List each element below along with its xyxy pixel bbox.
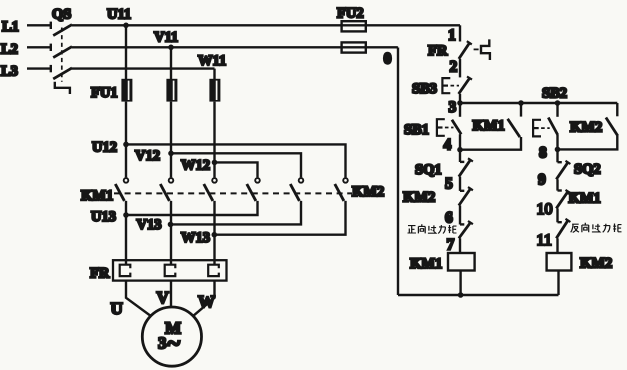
svg-text:3: 3 [158,334,167,353]
wire phase W vertical upper [213,69,215,80]
wire KM2 aux bottom to node 8 [558,136,618,150]
wire contact 1 bottom to U13 and FR [125,201,127,265]
svg-text:~: ~ [168,331,181,357]
svg-text:6: 6 [445,210,453,227]
svg-text:SB3: SB3 [412,81,437,97]
node 4 junction dot [457,147,463,153]
svg-text:QS: QS [52,7,71,23]
switch QS pole L3 contact tick [50,65,52,72]
wire phase W vertical mid (fuse to contact 3) [213,102,215,178]
contactor KM1 interlock NC contact [556,190,570,209]
svg-text:4: 4 [444,137,452,154]
node V12 junction dot [168,151,174,157]
svg-text:3: 3 [449,99,457,116]
svg-text:U13: U13 [91,209,116,225]
wire SB2 branch top [556,103,558,117]
fuse FU1 V-phase [166,79,177,102]
contactor KM2 main contact 6 [335,178,348,201]
svg-text:1: 1 [448,27,456,44]
svg-text:W13: W13 [181,230,210,246]
node U12 junction dot [123,142,129,148]
svg-text:KM1: KM1 [569,191,601,207]
button SB3 NC [442,77,472,94]
wire phase V vertical upper [170,47,172,80]
svg-text:8: 8 [539,145,547,162]
wire U to motor [126,281,150,316]
motor M circle [142,307,201,366]
wire SB3 to node 3 [459,94,461,103]
svg-text:2: 2 [450,59,458,76]
wire phase U vertical upper [125,25,127,80]
switch QS pole L1 contact tick [50,22,52,29]
svg-text:V12: V12 [135,148,160,164]
button SB2 NO start reverse [533,118,558,137]
svg-text:V13: V13 [137,217,162,233]
wire KM2 aux branch top [616,103,618,116]
FR trip dash link [474,48,479,50]
wire W13 horizontal to contact 6 bottom [215,201,346,235]
svg-text:5: 5 [445,176,453,193]
wire KM1 aux bottom to node 4 [460,137,521,150]
switch QS pole L2 blade [53,47,72,58]
wire node1 to node2 to SB3 [459,59,461,78]
wire overtorque to KM1 coil [459,238,461,253]
wire V12 horizontal to contact 5 [171,153,301,177]
svg-text:11: 11 [537,232,552,249]
wire bottom return line [398,294,559,296]
wire node8 to SQ2 [556,149,558,162]
node U11 junction dot [123,23,129,29]
FR heater element V [165,265,176,276]
svg-text:FU1: FU1 [91,85,118,101]
switch QS pole L3 blade [53,68,72,79]
wire W12 horizontal to contact 4 [215,162,258,177]
node KM1-aux top junction dot [518,100,524,106]
svg-text:W12: W12 [181,158,210,174]
svg-text:U11: U11 [107,7,131,23]
wire node4 to SQ1 [459,150,461,162]
svg-text:KM2: KM2 [580,256,612,272]
wire node3 to SB1 [459,103,461,117]
svg-text:SB1: SB1 [404,122,429,138]
wire KM1 coil to bottom line [459,271,461,296]
svg-text:KM2: KM2 [352,184,384,200]
contactor KM1 auxiliary NO contact [508,119,520,137]
svg-text:U: U [111,299,123,318]
FR thermal element symbol [481,39,490,60]
svg-text:FR: FR [90,266,110,282]
wire L3 stub [27,67,51,69]
fuse FU2 lower [342,42,366,52]
wire L2 main run to FU2 [72,46,398,49]
forward overtorque NC contact [459,221,473,238]
wire KM1 aux branch top [520,103,522,117]
node U13 junction dot [123,212,129,218]
contactor KM1 main contact 2 [160,178,173,201]
svg-text:SQ1: SQ1 [415,162,442,178]
coil KM2 [547,253,572,271]
svg-text:10: 10 [537,201,553,218]
svg-text:SQ2: SQ2 [574,162,601,178]
switch QS handle [55,82,70,94]
wire SQ1 to KM2 interlock [459,177,461,191]
wire L1 main run to FU2 [72,24,460,26]
rail 0 vertical [397,48,399,296]
svg-text:KM2: KM2 [570,120,602,136]
linkage dashed line KM1-KM2 main contacts [114,192,352,194]
wire U12 horizontal to contact 6 [126,144,346,177]
svg-text:KM1: KM1 [473,118,505,134]
contactor KM2 interlock NC contact [459,187,473,205]
contactor KM1 main contact 1 [115,178,128,201]
svg-text:SB2: SB2 [542,86,567,102]
svg-text:FR: FR [428,43,448,59]
node V11 junction dot [168,45,174,51]
node W13 junction dot [212,232,218,238]
wire KM1 interlock to overtorque contact [556,208,558,222]
wire phase U vertical mid (fuse to contact 1) [125,102,127,178]
svg-text:W11: W11 [198,53,226,69]
contactor KM1 main contact 3 [204,178,217,201]
wire node 3 horizontal to KM2 aux branch [460,102,617,104]
fuse FU1 U-phase [121,79,132,102]
svg-text:L3: L3 [1,64,18,80]
svg-text:9: 9 [538,172,546,189]
FR heater element U [120,265,131,276]
contactor KM2 auxiliary NO contact [606,118,618,136]
reverse overtorque NC contact [556,219,570,239]
wire contact 3 bottom to W13 and FR [213,201,215,265]
svg-text:KM2: KM2 [403,190,435,206]
svg-text:W: W [198,292,215,311]
wire contact 2 bottom to V13 and FR [170,201,172,265]
svg-text:7: 7 [447,237,455,254]
svg-text:V: V [157,288,170,307]
contactor KM2 main contact 4 [247,178,260,201]
FR heater element W [208,265,219,276]
wire SQ2 to KM1 interlock [556,179,558,190]
fuse FU1 W-phase [209,79,220,102]
svg-text:V11: V11 [154,30,178,46]
svg-text:FU2: FU2 [337,6,364,22]
node SB2 top junction dot [555,100,561,106]
FR NC contact control [459,41,472,59]
wire L3 run to W11 corner [72,67,215,69]
node W12 junction dot [212,160,218,166]
thermal relay FR heater box [113,260,227,280]
svg-text:L1: L1 [2,19,19,35]
wire KM2 interlock to overtorque contact [459,206,461,225]
contactor KM2 main contact 5 [290,178,303,201]
wire L2 stub [27,46,51,48]
wire U13 horizontal to contact 4 bottom [126,201,258,215]
wire SB1 to node 4 [459,134,461,150]
svg-text:KM1: KM1 [81,188,113,204]
switch QS pole L1 blade [53,25,72,36]
label reverse overtorque (反向过力矩) [571,223,622,233]
label forward overtorque (正向过力矩) [408,224,457,233]
button SB1 NO start forward [437,119,461,136]
fuse FU2 upper [342,21,366,31]
wire L1 stub [27,24,51,26]
rail 1 corner down [459,25,461,41]
switch QS pole L2 contact tick [50,44,52,51]
svg-text:U12: U12 [92,140,117,156]
svg-text:0: 0 [384,51,392,68]
svg-text:KM1: KM1 [410,256,442,272]
wire W to motor [194,281,215,316]
torque switch SQ2 NC [556,161,570,180]
node 8 junction dot [555,147,561,153]
wire V to motor [170,281,172,307]
svg-text:L2: L2 [1,42,18,58]
node bottom junction dot [458,292,464,298]
wire phase V vertical mid (fuse to contact 2) [170,102,172,178]
coil KM1 [448,253,475,271]
node V13 junction dot [168,222,174,228]
wire SB2 to node 8 [556,135,558,149]
wire KM2 coil to bottom line [557,271,559,296]
wire V13 horizontal to contact 5 bottom [171,201,301,225]
switch QS linkage dashed line [61,28,63,82]
wire overtorque to KM2 coil [556,238,558,253]
torque switch SQ1 NC [459,158,473,176]
node 3 junction dot [457,100,463,106]
